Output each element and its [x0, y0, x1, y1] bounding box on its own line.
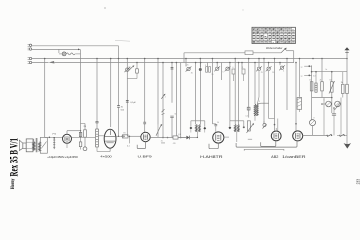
svg-text:1/canBER: 1/canBER [282, 155, 307, 159]
svg-text:12: 12 [129, 66, 131, 68]
svg-text:H.AH8TR: H.AH8TR [200, 155, 224, 159]
svg-text:1k: 1k [309, 80, 311, 82]
svg-text:470: 470 [173, 143, 176, 145]
svg-text:0,1: 0,1 [127, 146, 130, 148]
svg-text:Horny: Horny [10, 178, 16, 189]
svg-text:233: 233 [355, 179, 360, 185]
svg-text:25: 25 [187, 64, 189, 66]
svg-text:2M: 2M [84, 126, 87, 128]
svg-text:8: 8 [314, 118, 315, 120]
svg-text:6: 6 [324, 100, 325, 102]
svg-text:6,3: 6,3 [313, 75, 315, 77]
svg-text:4: 4 [283, 70, 284, 72]
svg-text:0,3: 0,3 [178, 134, 180, 136]
svg-text:30: 30 [191, 73, 193, 75]
svg-text:2k: 2k [320, 80, 322, 82]
svg-text:6: 6 [233, 67, 234, 69]
svg-text:70: 70 [123, 133, 125, 135]
svg-text:0,1µF: 0,1µF [130, 102, 136, 104]
svg-text:+10µF/450V+4µF/450: +10µF/450V+4µF/450 [47, 155, 78, 159]
svg-text:4×500: 4×500 [100, 155, 112, 159]
svg-text:3: 3 [259, 101, 260, 103]
svg-text:5: 5 [223, 72, 224, 74]
svg-text:U.BF9: U.BF9 [138, 155, 153, 159]
svg-text:3: 3 [205, 65, 206, 67]
svg-text:0,5: 0,5 [246, 116, 248, 118]
svg-text:15: 15 [212, 74, 214, 76]
svg-text:20: 20 [272, 72, 274, 74]
svg-text:Wellenschalter: Wellenschalter [266, 47, 283, 50]
svg-text:2: 2 [165, 97, 166, 99]
svg-text:1: 1 [242, 67, 243, 69]
svg-text:AB2: AB2 [271, 155, 278, 159]
svg-text:2a: 2a [325, 69, 327, 71]
svg-text:Rex 35 B V/1: Rex 35 B V/1 [6, 138, 20, 177]
svg-text:5k: 5k [175, 114, 177, 116]
svg-text:50: 50 [217, 122, 219, 124]
svg-text:25: 25 [261, 72, 263, 74]
svg-text:50: 50 [329, 79, 331, 81]
svg-text:5000: 5000 [161, 143, 165, 145]
